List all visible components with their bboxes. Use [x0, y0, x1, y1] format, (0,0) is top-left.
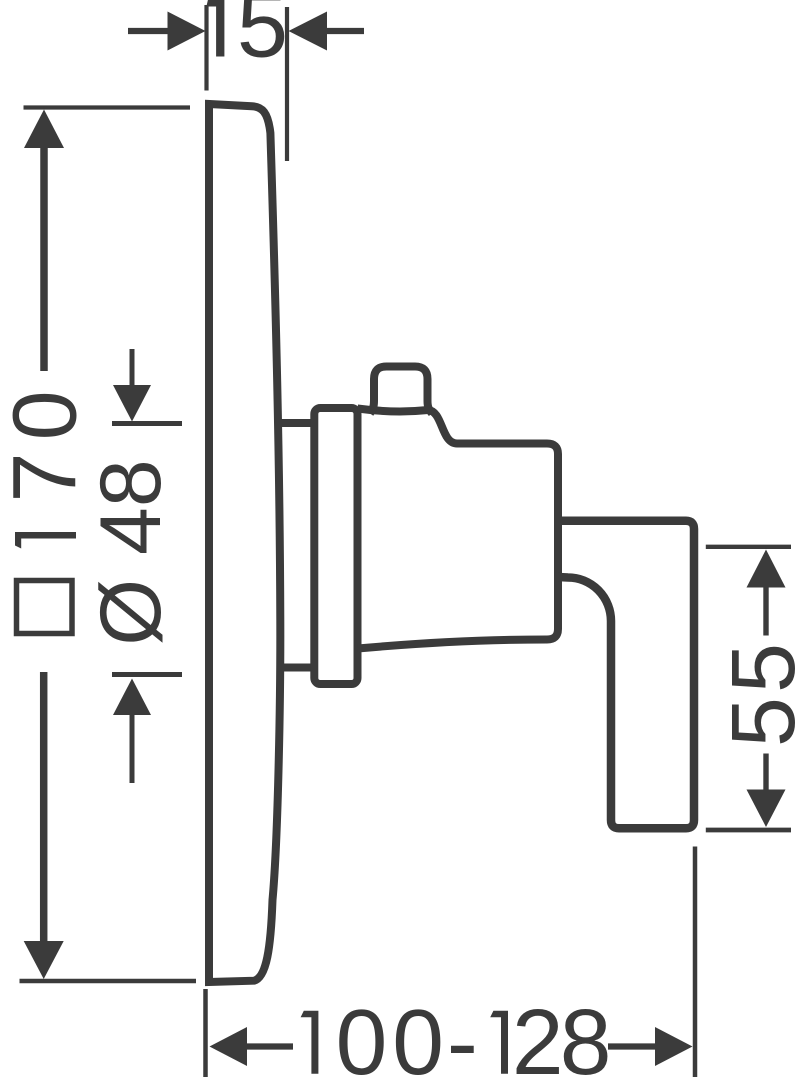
extension line right	[285, 7, 289, 161]
extension line right	[693, 847, 698, 1077]
dimension square 170 (plate size, left)	[0, 108, 196, 982]
tick top	[112, 421, 182, 426]
label 15	[206, 0, 224, 57]
arrow up (below bottom tick)	[130, 715, 135, 783]
dimension 100-128 (installation depth, bottom)	[206, 847, 696, 1077]
stop button on body	[370, 367, 432, 414]
svg-text:2: 2	[512, 990, 564, 1077]
arrow up	[24, 110, 64, 149]
dimension diameter 48 (valve stub)	[83, 349, 182, 783]
extension line bottom	[20, 979, 197, 984]
arrow left	[128, 28, 170, 34]
label 100-128	[301, 1011, 319, 1074]
dimension 55 (handle, right)	[706, 547, 796, 830]
svg-text:Ø 48: Ø 48	[83, 459, 179, 645]
svg-text:7: 7	[0, 452, 96, 502]
extension line left	[203, 989, 208, 1077]
dimension line lower segment	[40, 672, 48, 945]
arrow down (above top tick)	[130, 349, 135, 387]
escutcheon plate (side profile)	[209, 104, 280, 982]
svg-text:8: 8	[560, 990, 612, 1077]
svg-text:5: 5	[237, 0, 288, 77]
valve stub bottom edge	[278, 664, 314, 672]
valve body	[358, 409, 559, 649]
lever handle	[558, 521, 694, 829]
svg-text:0: 0	[0, 390, 96, 440]
dimension 15 (plate thickness, top)	[128, 0, 364, 161]
svg-text:-: -	[447, 990, 478, 1077]
mounting flange	[314, 408, 357, 684]
svg-text:0: 0	[392, 990, 444, 1077]
arrow right	[655, 1027, 693, 1066]
square symbol	[17, 581, 73, 634]
tick bottom	[112, 672, 182, 677]
svg-text:55: 55	[714, 639, 796, 747]
extension line top	[706, 545, 791, 549]
dimension line upper segment	[40, 147, 48, 371]
arrow down	[24, 941, 64, 979]
extension line top	[24, 105, 191, 109]
arrow right	[326, 28, 364, 34]
extension line bottom	[706, 828, 791, 833]
arrow down	[747, 790, 786, 828]
valve stub top edge	[278, 419, 314, 427]
svg-text:0: 0	[336, 990, 388, 1077]
arrow up	[747, 550, 786, 588]
extension line left	[204, 5, 208, 91]
arrow left	[210, 1027, 248, 1066]
